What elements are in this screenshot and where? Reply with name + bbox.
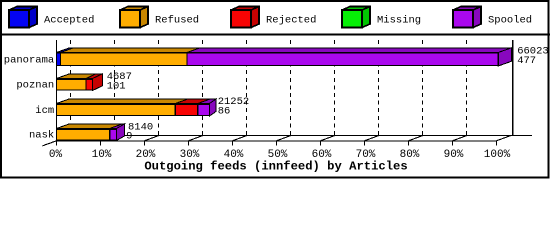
bar icm: front faces xyxy=(57,104,210,115)
bar poznan: top faces xyxy=(57,74,103,91)
rejected front xyxy=(175,104,197,115)
svg-text:Outgoing feeds (innfeed) by Ar: Outgoing feeds (innfeed) by Articles xyxy=(144,159,407,173)
refused top xyxy=(57,99,189,104)
svg-text:86: 86 xyxy=(218,106,231,118)
refused top xyxy=(57,74,100,79)
legend cube Rejected (red) xyxy=(231,7,259,28)
svg-text:100%: 100% xyxy=(484,149,511,161)
outer border xyxy=(1,1,549,178)
rejected top (dark red) xyxy=(86,74,103,79)
refused front xyxy=(57,79,87,90)
front bottom axis line xyxy=(57,140,497,142)
right axis line (100% back) xyxy=(512,40,514,136)
back bottom axis line xyxy=(71,135,533,137)
refused front xyxy=(57,129,110,140)
svg-text:101: 101 xyxy=(107,81,126,93)
rejected top xyxy=(175,99,210,104)
legend cube Refused (orange) xyxy=(120,7,148,28)
legend cube Accepted (blue) xyxy=(9,7,37,28)
spooled front xyxy=(110,129,117,140)
bar panorama: front faces xyxy=(57,53,499,65)
svg-text:90%: 90% xyxy=(444,149,464,161)
svg-text:9: 9 xyxy=(126,131,132,143)
svg-text:Spooled: Spooled xyxy=(488,15,532,27)
svg-text:Refused: Refused xyxy=(155,15,199,27)
x tick marks (vertical, below front axis) xyxy=(57,141,497,146)
refused top xyxy=(57,124,123,129)
legend separator line xyxy=(0,34,550,36)
rejected front xyxy=(86,79,93,90)
rejected side face xyxy=(93,74,103,91)
bar nask: front faces xyxy=(57,129,117,140)
x tick labels xyxy=(49,149,511,161)
origin 3d diagonal xyxy=(43,141,57,146)
refused top (dark orange) xyxy=(61,48,201,53)
svg-text:panorama: panorama xyxy=(4,54,54,66)
bar poznan: front faces xyxy=(57,79,93,90)
y axis line xyxy=(56,40,58,141)
spooled front (purple) xyxy=(187,53,498,65)
svg-text:poznan: poznan xyxy=(16,80,54,92)
svg-text:Rejected: Rejected xyxy=(266,15,316,27)
spooled front xyxy=(198,104,210,115)
svg-text:10%: 10% xyxy=(92,149,112,161)
spooled side face xyxy=(210,99,217,116)
spooled top xyxy=(110,124,125,129)
bar nask: top faces xyxy=(57,124,125,141)
svg-text:0%: 0% xyxy=(49,149,63,161)
accepted top (blue) xyxy=(57,48,74,53)
svg-text:477: 477 xyxy=(517,55,536,67)
x tick 3d diagonals (behind bars) xyxy=(57,136,511,141)
svg-text:nask: nask xyxy=(29,130,54,142)
spooled top (dark purple) xyxy=(187,48,511,53)
svg-text:Accepted: Accepted xyxy=(44,15,94,27)
spooled side face xyxy=(117,124,125,141)
refused front xyxy=(57,104,176,115)
bar panorama: top faces xyxy=(57,48,512,66)
refused front (orange) xyxy=(61,53,188,65)
svg-text:Missing: Missing xyxy=(377,15,421,27)
accepted front (blue) xyxy=(57,53,61,65)
spooled top xyxy=(198,99,216,104)
spooled side face xyxy=(498,48,511,66)
svg-text:icm: icm xyxy=(35,105,54,117)
legend cube Missing (green) xyxy=(342,7,370,28)
dashed gridlines at 0%..90% (back plane) xyxy=(71,40,467,136)
legend cube Spooled (purple) xyxy=(453,7,481,28)
bar icm: top faces xyxy=(57,99,217,116)
